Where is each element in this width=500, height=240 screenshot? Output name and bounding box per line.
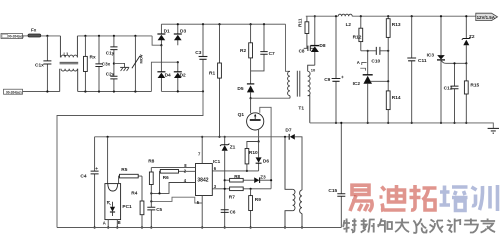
wire DC minus bus [161,90,203,92]
optocoupler PC1 [103,184,132,226]
node Z1 top on aux bus [224,136,226,138]
wire primary ground bus [57,227,341,229]
node R10 bottom on pin6 wire [246,170,248,172]
node gate network top [258,140,260,142]
capacitor C3x [95,36,110,92]
capacitor C12 [444,62,459,124]
wire primary top from rail [286,24,291,71]
wire bridge left leg mid [160,45,162,72]
diode D2 [174,62,186,91]
resistor Rx [84,36,96,92]
terminal output flag 12V 1.5A [476,13,498,20]
varistor MOV [132,36,144,92]
node C1y top [113,35,115,37]
diode D7 [285,127,302,190]
node C1x bottom [46,90,48,92]
capacitor C15 Y-cap [328,122,345,228]
capacitor C9 [324,16,344,124]
wire bus to PC1 [107,137,109,184]
node PC1 collector on bus [107,136,109,138]
transistor Q1 MOSFET [238,112,264,130]
wire top rail to choke [41,35,61,37]
node R13 top [387,15,389,17]
resistor R12 [353,16,363,51]
node C3x top [98,35,100,37]
inductor L2 [338,14,352,27]
resistor R14 [386,81,401,124]
pin 7 wire Vcc [198,136,203,164]
zener Z3 [254,175,272,183]
resistor R9 [249,189,262,229]
pin 8 wire [151,163,195,168]
wire AC2 into bridge [151,62,177,91]
chassis ground symbol [120,64,129,72]
fuse Fx [28,27,41,37]
pin 2 wire with resistor R6 [160,168,196,193]
capacitor C10 [361,47,390,65]
diode D3 [174,24,187,45]
transformer T1 secondary winding [298,65,316,123]
node R2 top rail [250,23,252,25]
aux winding B [300,190,304,228]
wire bridge top rail [161,23,285,25]
resistor R10 [245,142,259,171]
pin 6 wire output [212,166,258,171]
node divider ref [387,80,389,82]
watermark big text yi di tuo (red) [350,185,437,212]
resistor R8 gate [225,174,255,182]
terminal AC live input box [1,34,24,39]
wire secondary ground bus [310,123,494,128]
wire Q1 upper loop to source rail [260,107,271,189]
node R8 left on Z1 line [224,179,226,181]
wire secondary top rail [306,15,476,17]
node bridge D3 top rail [177,23,179,25]
resistor R7 [229,187,271,200]
node C2y bottom [113,90,115,92]
node C9 top [335,15,337,17]
node C7 top rail [263,23,265,25]
wire Q1 lower to gate network [258,130,260,142]
transformer T1 core [297,71,300,97]
common-mode choke L1 [60,36,79,92]
node MOV bottom [134,90,136,92]
diode D6 [256,142,270,171]
resistor R13 [386,16,401,81]
capacitor C6 [221,209,236,228]
node drain [250,97,252,99]
node bridge AC2 [177,61,179,63]
diode D5 clamp [237,84,254,98]
IC2 shunt regulator TL431 [353,50,389,124]
capacitor C1y [106,36,118,64]
capacitor C5 [147,201,162,228]
capacitor C11 [407,16,427,124]
node C1x top [46,35,48,37]
IC U1 3842 [196,159,221,195]
pin 3 wire sense [212,184,229,190]
capacitor C1x [35,36,51,92]
wire drain down to Q1 [250,98,252,113]
pin 4 wire [150,178,195,194]
node C3 on bus [202,90,204,92]
resistor R4 [131,176,144,228]
transformer T1 primary winding [288,71,290,98]
pin 5 wire ground [197,196,203,229]
pin 1 comp wire [150,197,202,203]
node Rx bottom [84,90,86,92]
terminal AC neutral input box [4,89,23,94]
resistor R1 [209,24,221,138]
node A label [357,60,367,65]
node aux winding A top [284,136,286,138]
node R1 top rail [218,23,220,25]
node R12 top [360,15,362,17]
node R9 top [250,188,252,190]
diode D1 [157,24,170,45]
node D2 anode on bus [177,90,179,92]
capacitor C2y [106,64,118,92]
wire to chassis ground [114,63,123,65]
wire live to fuse [23,35,29,37]
capacitor C3 bulk [195,24,207,91]
capacitor C7 [251,24,275,71]
aux winding A [284,137,295,229]
resistor R15 [464,63,479,124]
capacitor C4 [80,137,98,229]
node C11 top [411,15,413,17]
resistor R5 [119,167,142,184]
node bridge AC1 [160,44,162,46]
node C1y C2y midpoint [113,62,115,64]
capacitor C8 snubber [299,46,315,54]
resistor R2 [240,24,253,84]
node Rx top [84,35,86,37]
wire bottom rail to choke [23,91,60,93]
ground symbol secondary [488,128,499,133]
resistor R8 vertical feedback [148,158,154,201]
zener Z1 [220,137,236,228]
node C3 top rail [202,23,204,25]
wire PC1 LED legs to ground [107,220,118,229]
node C3x bottom [98,90,100,92]
resistor R11 snubber [297,16,308,48]
node MOV top [134,35,136,37]
watermark big text pei xun (blue) [440,185,498,211]
zener Z2 [462,15,475,64]
diode D8 output rectifier [310,15,325,65]
wire drain to primary bottom [251,97,290,99]
wire AC1 into bridge [152,36,161,45]
IC3 shunt regulator [427,15,467,124]
wire primary ground return left [57,91,203,227]
diode D4 [157,72,171,92]
watermark subtitle gray characters [343,219,495,234]
wire aux Vcc bus [95,136,290,138]
wire bottom rail after choke [78,91,152,93]
wire top rail after choke [77,35,152,37]
